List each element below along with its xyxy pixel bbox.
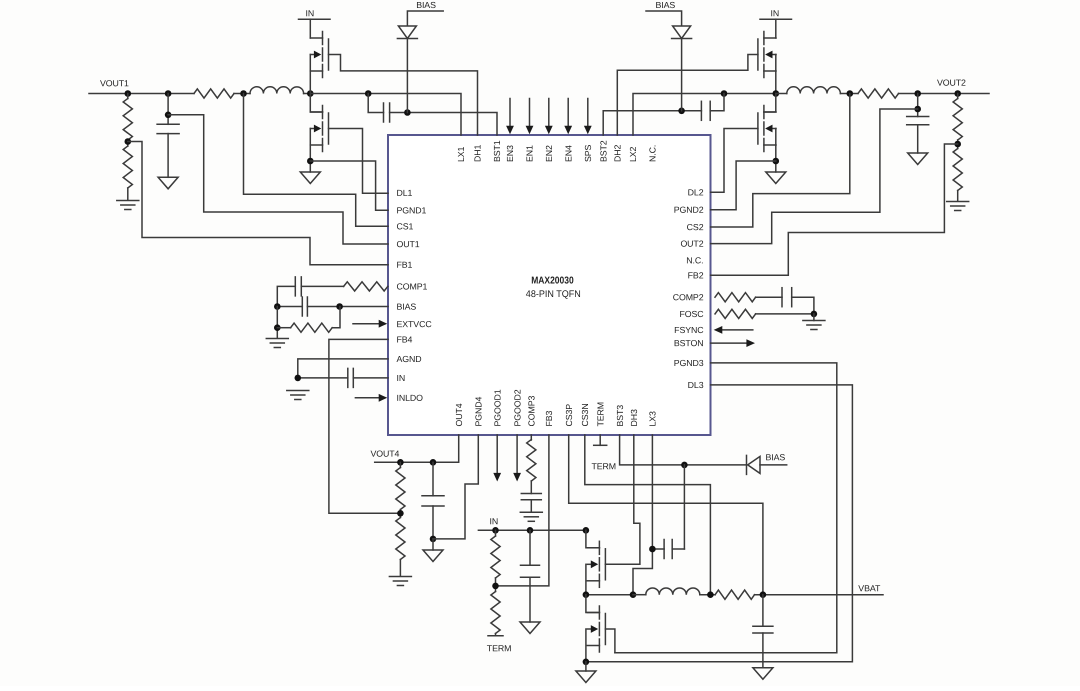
ground Q6 source (arrow style) — [585, 662, 587, 671]
wire Q3 body/source to switch node — [775, 55, 777, 94]
capacitor bootstrap1 — [383, 103, 385, 122]
junction R row tap — [274, 324, 281, 331]
svg-text:PGND4: PGND4 — [474, 396, 484, 426]
svg-text:BST3: BST3 — [615, 405, 625, 427]
svg-text:EXTVCC: EXTVCC — [396, 319, 432, 329]
inductor L2 — [776, 93, 787, 95]
svg-text:N.C.: N.C. — [686, 255, 703, 265]
svg-text:COMP1: COMP1 — [396, 282, 427, 292]
svg-text:BSTON: BSTON — [674, 338, 704, 348]
svg-text:IN: IN — [305, 8, 314, 18]
wire PGND3 to low-side gate net — [615, 363, 837, 653]
junction switch node 1 — [307, 90, 314, 97]
wire COMP1 R to C — [301, 285, 343, 287]
junction Q6 source/DL3 — [583, 659, 590, 666]
inductor L3 — [633, 594, 646, 596]
input arrow EN3 — [509, 99, 511, 128]
wire PGND1 — [310, 161, 388, 210]
input arrow EXTVCC — [353, 323, 379, 325]
ground divider4 (bar style) — [389, 576, 411, 578]
junction BST3/bootcap3 — [681, 462, 688, 469]
junction Q2 source/PGND1 — [307, 158, 314, 165]
wire CS2 sense — [711, 94, 850, 228]
svg-text:FB3: FB3 — [544, 410, 554, 426]
wire CS3P sense — [569, 435, 763, 595]
diode D2 BIAS to BST2 — [673, 26, 691, 39]
svg-text:48-PIN TQFN: 48-PIN TQFN — [526, 289, 581, 300]
svg-text:INLDO: INLDO — [396, 393, 423, 403]
resistor FOSC — [715, 309, 756, 318]
junction FB4 tap — [397, 510, 404, 517]
junction TERM div mid — [492, 583, 499, 590]
svg-text:AGND: AGND — [396, 354, 421, 364]
resistor divider1 top — [127, 94, 129, 99]
junction CS3N node — [707, 591, 714, 598]
ground C-vout2 (arrow style) — [908, 153, 928, 165]
svg-text:SPS: SPS — [583, 144, 593, 162]
resistor divider4 bottom — [396, 518, 405, 560]
wire gnd column down — [276, 307, 278, 339]
junction Q4 source/PGND2 — [773, 158, 780, 165]
svg-text:TERM: TERM — [487, 643, 512, 653]
resistor divider2 bottom — [953, 149, 962, 191]
junction VOUT1/divider — [125, 90, 132, 97]
svg-text:PGND2: PGND2 — [674, 205, 704, 215]
resistor COMP1 — [344, 282, 388, 291]
output arrow BSTON — [711, 342, 747, 344]
wire BIAS2 bar — [646, 11, 682, 26]
wire FOSC to gnd — [756, 313, 814, 315]
junction CS2 tap — [847, 90, 854, 97]
wire IN cap to pin — [353, 377, 388, 379]
svg-text:IN: IN — [396, 373, 405, 383]
output arrow PGOOD1 — [496, 435, 498, 473]
wire bootstrap2 right — [710, 94, 724, 111]
wire bootstrap1 to BST1 — [390, 113, 497, 136]
resistor VOUT2 filter (horizontal) — [858, 89, 899, 98]
transistor Q2 (low-side buck1) — [322, 106, 324, 119]
wire DL3 to source net — [586, 385, 853, 662]
svg-text:EN2: EN2 — [544, 145, 554, 162]
wire FB4 to divider4 — [329, 339, 401, 513]
capacitor IN bypass — [347, 368, 349, 387]
svg-text:DL1: DL1 — [396, 188, 412, 198]
svg-text:PGOOD1: PGOOD1 — [492, 389, 502, 426]
transistor Q1 (high-side buck1) — [322, 32, 324, 45]
resistor TERM divider top — [495, 530, 497, 536]
capacitor C-vout1 — [167, 94, 169, 125]
junction bootstrap1 tap — [365, 90, 372, 97]
wire BIAS pin row — [340, 306, 388, 308]
junction BST1/diode1 — [404, 109, 411, 116]
junction BIAS/R — [336, 303, 343, 310]
wire VOUT1 main rail — [89, 93, 194, 95]
svg-text:EN4: EN4 — [563, 145, 573, 162]
terminal TERM (T-bar) — [495, 634, 497, 636]
junction VOUT2/cap — [914, 90, 921, 97]
capacitor C-vout4 — [432, 462, 434, 496]
svg-text:IN: IN — [489, 516, 498, 526]
junction IN/cap — [527, 527, 534, 534]
junction switch3 left — [583, 591, 590, 598]
wire switch3 to Q6 drain — [586, 595, 600, 613]
transistor Q6 (low-side buck3) — [598, 606, 600, 619]
ground divider2 (bar style) — [947, 201, 969, 203]
terminal TERM pin (T-bar) — [599, 435, 601, 445]
resistor COMP3 — [530, 435, 532, 440]
junction OUT2 tap — [914, 106, 921, 113]
junction FB2 tap — [954, 141, 961, 148]
resistor divider1 bottom — [123, 146, 132, 188]
junction OUT1 tap — [165, 112, 172, 119]
junction VOUT4/cap — [430, 459, 437, 466]
wire IN to Q3 drain — [775, 19, 777, 38]
capacitor COMP1 — [294, 277, 296, 296]
wire Q4 gate to DL2 — [711, 129, 758, 193]
wire Q5 source to switch node 3 — [585, 564, 587, 594]
junction BST2/diode2 — [678, 108, 685, 115]
svg-text:CS3P: CS3P — [564, 404, 574, 427]
resistor divider4 top — [399, 462, 401, 467]
svg-text:VBAT: VBAT — [858, 583, 881, 593]
wire LX3 to switch node 3 — [633, 435, 652, 595]
ground C-vout1 (arrow style) — [158, 177, 178, 189]
ground divider1 (bar style) — [117, 200, 139, 202]
svg-text:FB2: FB2 — [688, 270, 704, 280]
wire IN to Q1 drain — [309, 19, 311, 38]
svg-text:BIAS: BIAS — [416, 0, 436, 10]
input arrow INLDO — [355, 397, 379, 399]
wire D1 cathode to BST1 line — [406, 39, 408, 113]
svg-text:FSYNC: FSYNC — [674, 325, 704, 335]
svg-text:BST1: BST1 — [492, 140, 502, 162]
junction VOUT2/divider — [954, 90, 961, 97]
svg-text:LX2: LX2 — [628, 146, 638, 162]
wire Q2 source to ground node — [309, 129, 311, 173]
wire to VBAT — [755, 594, 884, 596]
junction VOUT4/divider — [397, 459, 404, 466]
wire BIAS1 bar — [407, 11, 443, 26]
wire COMP2 R to C — [756, 296, 782, 298]
ground C-in (arrow style) — [520, 622, 540, 634]
svg-text:TERM: TERM — [591, 461, 616, 471]
svg-text:DL3: DL3 — [688, 380, 704, 390]
capacitor BIAS decouple — [307, 306, 339, 308]
svg-text:VOUT2: VOUT2 — [937, 78, 966, 88]
wire Q6 source to ground — [585, 629, 587, 662]
ground Q4 source (arrow style) — [766, 172, 786, 184]
ground AGND/IN (bar style) — [287, 390, 309, 392]
junction switch3 right — [630, 591, 637, 598]
svg-text:LX3: LX3 — [648, 411, 658, 427]
input arrow EN2 — [548, 99, 550, 128]
junction VOUT1/cap — [165, 90, 172, 97]
input arrow FSYNC — [722, 329, 753, 331]
wire CS1 sense — [244, 94, 389, 227]
svg-text:BIAS: BIAS — [765, 452, 785, 462]
wire R to VOUT2 end — [899, 93, 990, 95]
svg-text:BIAS: BIAS — [655, 0, 675, 10]
diode D3 BIAS to BST3 — [746, 455, 748, 474]
svg-text:OUT2: OUT2 — [680, 239, 703, 249]
wire FB2 sense — [711, 144, 958, 275]
svg-text:FB4: FB4 — [396, 335, 412, 345]
junction LX3/bootcap3 — [649, 546, 656, 553]
wire OUT2 sense — [711, 109, 918, 244]
wire OUT1 sense — [168, 115, 388, 244]
junction COMP2/FOSC gnd — [811, 311, 818, 318]
output arrow PGOOD2 — [516, 435, 518, 473]
resistor TERM divider bottom — [491, 592, 500, 634]
wire IN rail bottom — [478, 529, 586, 531]
wire L1 to switch node — [304, 93, 311, 95]
svg-text:BIAS: BIAS — [396, 302, 416, 312]
wire switch node 2 to Q4 drain — [764, 94, 776, 113]
svg-text:OUT1: OUT1 — [396, 239, 419, 249]
resistor VOUT1 filter (horizontal) — [194, 89, 234, 98]
junction IN/Q5 drain — [583, 527, 590, 534]
transistor Q5 (high-side buck3) — [598, 541, 600, 554]
svg-text:DH1: DH1 — [473, 144, 483, 162]
wire bootstrap2 to BST2 — [603, 111, 701, 135]
svg-text:EN1: EN1 — [525, 145, 535, 162]
junction CS1 tap — [240, 90, 247, 97]
wire switch node to Q2 drain — [310, 94, 322, 113]
wire Q2 gate to DL1 — [329, 129, 389, 194]
svg-text:VOUT1: VOUT1 — [100, 78, 129, 88]
svg-text:MAX20030: MAX20030 — [531, 276, 574, 287]
svg-text:DL2: DL2 — [688, 187, 704, 197]
resistor COMP2 — [715, 293, 756, 302]
wire FB1 from divider to pin — [128, 142, 388, 265]
input arrow EN4 — [567, 99, 569, 128]
input arrow SPS — [587, 99, 589, 128]
ground COMP3 (bar style) — [530, 500, 532, 512]
svg-text:TERM: TERM — [595, 402, 605, 427]
wire Q6 gate to PGND3 net — [605, 629, 615, 653]
wire PGND4 — [433, 435, 478, 539]
capacitor C-vbat — [762, 595, 764, 627]
svg-text:N.C.: N.C. — [648, 145, 658, 162]
input arrow EN1 — [529, 99, 531, 128]
ground COMP2/FOSC (bar style) — [813, 314, 815, 321]
svg-text:FB1: FB1 — [396, 260, 412, 270]
wire switch node to LX1 — [310, 94, 461, 136]
wire switch node 3 — [586, 594, 633, 596]
ground COMP1/BIAS (bar style) — [266, 338, 288, 340]
svg-text:LX1: LX1 — [456, 146, 466, 162]
wire COMP1 C to gnd column — [277, 286, 295, 306]
wire DH3 to Q5 gate — [605, 435, 640, 564]
svg-text:VOUT4: VOUT4 — [370, 449, 399, 459]
resistor BIAS parallel — [277, 327, 290, 329]
wire BST3 to diode — [620, 435, 747, 465]
wire OUT4 to VOUT4 node — [375, 435, 459, 462]
transistor Q3 (high-side buck2) — [763, 32, 765, 45]
wire Q1 body/source to switch node — [309, 55, 311, 94]
svg-text:DH3: DH3 — [629, 409, 639, 427]
transistor Q4 (low-side buck2) — [763, 106, 765, 119]
ground C-vout4 (arrow style) — [432, 539, 434, 550]
wire Q4 source to ground — [775, 129, 777, 173]
wire Q3 gate to DH2 — [617, 55, 758, 136]
junction IN/TERM divider — [492, 527, 499, 534]
wire IN rail to Q5 drain — [586, 530, 600, 548]
svg-text:EN3: EN3 — [505, 145, 515, 162]
ground Q2 source (arrow style) — [300, 172, 320, 184]
junction C4/PGND4 — [430, 536, 437, 543]
wire R to L1 — [234, 93, 250, 95]
wire COMP3 R to C — [530, 481, 532, 494]
wire CS3N sense — [585, 435, 711, 595]
capacitor C-in bottom — [529, 530, 531, 565]
svg-text:OUT4: OUT4 — [454, 403, 464, 426]
ground C-vbat (arrow style) — [753, 668, 773, 680]
wire IN pin left segment — [298, 377, 348, 379]
junction AGND/IN gnd — [295, 375, 302, 382]
wire bootcap3 right leg — [683, 465, 685, 549]
svg-text:BST2: BST2 — [598, 140, 608, 162]
svg-text:PGND3: PGND3 — [674, 358, 704, 368]
wire switch node 2 to LX2 — [633, 94, 776, 136]
svg-text:PGND1: PGND1 — [396, 205, 426, 215]
wire L2 to R — [840, 93, 858, 95]
svg-text:CS1: CS1 — [396, 221, 413, 231]
wire Q1 gate to DH1 — [329, 55, 478, 136]
wire PGND2 — [711, 161, 776, 210]
diode D1 BIAS to BST1 — [398, 26, 416, 39]
junction VBAT node — [760, 591, 767, 598]
svg-text:PGOOD2: PGOOD2 — [512, 389, 522, 426]
op-amp U1 MAX20030 IC body — [388, 135, 711, 435]
svg-text:COMP3: COMP3 — [527, 396, 537, 427]
junction bootstrap2 tap — [721, 90, 728, 97]
junction switch node 2 — [773, 90, 780, 97]
capacitor COMP2 — [781, 288, 783, 307]
wire AGND — [298, 359, 388, 378]
svg-text:IN: IN — [770, 8, 779, 18]
wire L3 to sense resistor — [700, 594, 715, 596]
capacitor bootstrap2 — [700, 101, 702, 120]
junction FB1 tap — [125, 138, 132, 145]
junction BIAS gnd col — [274, 303, 281, 310]
wire D3 anode to BIAS — [760, 464, 787, 466]
resistor R-sense3 — [715, 590, 754, 599]
wire D2 cathode — [681, 39, 683, 111]
inductor L1 — [250, 87, 304, 94]
svg-text:FOSC: FOSC — [679, 309, 704, 319]
wire COMP2 to gnd col — [792, 297, 814, 314]
wire FB3 sense — [496, 435, 549, 586]
svg-text:DH2: DH2 — [613, 144, 623, 162]
resistor divider2 top — [957, 94, 959, 99]
svg-text:CS3N: CS3N — [580, 403, 590, 426]
capacitor C-vout2 — [917, 94, 919, 117]
svg-text:COMP2: COMP2 — [673, 292, 704, 302]
capacitor COMP3 — [521, 493, 541, 495]
capacitor bootstrap3 — [672, 548, 684, 550]
svg-text:CS2: CS2 — [687, 222, 704, 232]
wire bootstrap1 left — [368, 94, 383, 113]
